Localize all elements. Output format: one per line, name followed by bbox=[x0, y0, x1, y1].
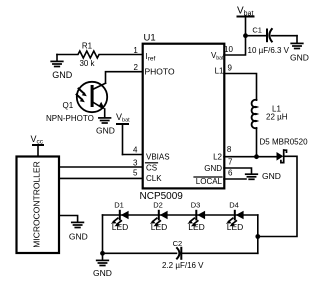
IC U1 bbox=[143, 44, 225, 189]
power Vcc bbox=[33, 145, 43, 157]
svg-text:10 µF/6.3 V: 10 µF/6.3 V bbox=[248, 46, 290, 55]
svg-text:LOCAL: LOCAL bbox=[196, 177, 223, 186]
LED D2 bbox=[150, 211, 168, 227]
junction L2 node bbox=[254, 154, 259, 159]
svg-text:7: 7 bbox=[228, 157, 233, 166]
diode D5 MBR0520 (schottky) bbox=[277, 150, 287, 163]
svg-text:CLK: CLK bbox=[146, 174, 162, 183]
wire L1 to node bbox=[256, 128, 258, 157]
svg-text:9: 9 bbox=[228, 63, 233, 72]
junction LED output node bbox=[255, 234, 260, 239]
svg-text:C2: C2 bbox=[173, 239, 183, 248]
LED D1 bbox=[111, 211, 129, 227]
junction LED gnd node bbox=[100, 251, 105, 256]
svg-text:5: 5 bbox=[133, 169, 138, 178]
svg-text:GND: GND bbox=[204, 164, 222, 173]
wire Q1 collector to pin 2 bbox=[106, 72, 143, 84]
svg-text:LED: LED bbox=[151, 222, 168, 232]
svg-text:Vbat: Vbat bbox=[237, 6, 253, 18]
power Vbat (to VBIAS) bbox=[117, 124, 128, 155]
svg-text:U1: U1 bbox=[144, 33, 156, 44]
ground (pin 7) bbox=[246, 174, 258, 179]
svg-text:GND: GND bbox=[69, 232, 88, 242]
svg-text:LED: LED bbox=[112, 222, 129, 232]
svg-text:GND: GND bbox=[290, 53, 309, 63]
svg-text:8: 8 bbox=[227, 145, 232, 154]
svg-text:NPN-PHOTO: NPN-PHOTO bbox=[46, 114, 94, 123]
wire pin 8 L2 to node bbox=[224, 156, 257, 158]
svg-text:Vbat: Vbat bbox=[211, 51, 224, 61]
svg-text:R1: R1 bbox=[82, 42, 93, 51]
svg-text:6: 6 bbox=[228, 169, 233, 178]
wire Vbat node to C1 bbox=[246, 35, 268, 37]
ground (LED string) bbox=[97, 253, 109, 265]
svg-text:GND: GND bbox=[52, 70, 73, 80]
wire bottom row left of C2 bbox=[103, 252, 177, 254]
svg-text:30 k: 30 k bbox=[79, 59, 95, 68]
svg-text:1: 1 bbox=[133, 46, 138, 55]
microcontroller box bbox=[17, 157, 60, 254]
pin 6 label LOCAL (active low) bbox=[194, 177, 223, 186]
wire LED row bbox=[103, 214, 258, 216]
wire VBIAS pin 4 bbox=[123, 154, 143, 156]
svg-text:2: 2 bbox=[134, 63, 139, 72]
svg-text:GND: GND bbox=[93, 268, 112, 278]
inductor L1 bbox=[252, 100, 257, 128]
pin 3 label CS (active low) bbox=[146, 163, 158, 173]
svg-text:LED: LED bbox=[188, 222, 205, 232]
svg-text:D5 MBR0520: D5 MBR0520 bbox=[260, 138, 309, 147]
junction Vbat node bbox=[243, 33, 248, 38]
transistor Q1 NPN-PHOTO bbox=[77, 82, 108, 112]
svg-text:Vcc: Vcc bbox=[31, 134, 44, 146]
wire pin 7 to ground bbox=[224, 168, 252, 174]
svg-text:D1: D1 bbox=[114, 201, 124, 210]
wire LED right drop bbox=[257, 215, 259, 253]
svg-text:C1: C1 bbox=[252, 25, 262, 34]
LED D3 bbox=[187, 211, 205, 227]
svg-text:VBIAS: VBIAS bbox=[146, 153, 170, 162]
wire bottom row right of C2 bbox=[182, 252, 258, 254]
wire CLK: MCU to pin 5 bbox=[59, 177, 142, 179]
wire LED left drop bbox=[102, 215, 104, 253]
svg-text:GND: GND bbox=[96, 126, 115, 136]
wire node to D5 anode bbox=[257, 156, 277, 158]
svg-text:3: 3 bbox=[133, 158, 138, 167]
ground (R1) bbox=[51, 55, 63, 67]
wire pin 9 to L1 bbox=[224, 74, 257, 101]
ground (Q1 emitter) bbox=[99, 109, 111, 123]
LED D4 bbox=[226, 211, 244, 227]
wire Vbat node down to pin 10 bbox=[224, 36, 246, 55]
svg-text:22 µH: 22 µH bbox=[266, 113, 288, 122]
ground (C1) bbox=[291, 36, 303, 49]
capacitor C2 bbox=[177, 248, 181, 259]
svg-text:MICROCONTROLLER: MICROCONTROLLER bbox=[31, 161, 41, 247]
svg-text:CS: CS bbox=[146, 164, 157, 173]
ground (MCU) bbox=[72, 222, 84, 227]
wire CS: MCU to pin 3 bbox=[59, 166, 142, 168]
svg-text:D2: D2 bbox=[153, 201, 163, 210]
wire D5 cathode down right side bbox=[258, 156, 297, 236]
svg-text:Q1: Q1 bbox=[63, 101, 74, 110]
resistor R1 bbox=[57, 51, 142, 58]
wire MCU ground stub bbox=[59, 216, 78, 223]
svg-text:4: 4 bbox=[133, 145, 138, 154]
svg-text:PHOTO: PHOTO bbox=[145, 67, 175, 77]
svg-text:Iref: Iref bbox=[146, 52, 156, 63]
svg-text:2.2 µF/16 V: 2.2 µF/16 V bbox=[162, 261, 204, 270]
svg-text:Vbat: Vbat bbox=[116, 112, 130, 123]
svg-text:10: 10 bbox=[224, 45, 233, 54]
svg-text:L2: L2 bbox=[213, 153, 222, 162]
svg-text:L1: L1 bbox=[215, 67, 224, 76]
wire pin 6 LOCAL bbox=[224, 178, 246, 180]
svg-text:GND: GND bbox=[262, 171, 281, 181]
svg-text:LED: LED bbox=[227, 222, 244, 232]
svg-text:D3: D3 bbox=[191, 201, 201, 210]
capacitor C1 bbox=[267, 29, 297, 42]
svg-text:D4: D4 bbox=[229, 201, 239, 210]
power Vbat (top) bbox=[238, 17, 254, 36]
